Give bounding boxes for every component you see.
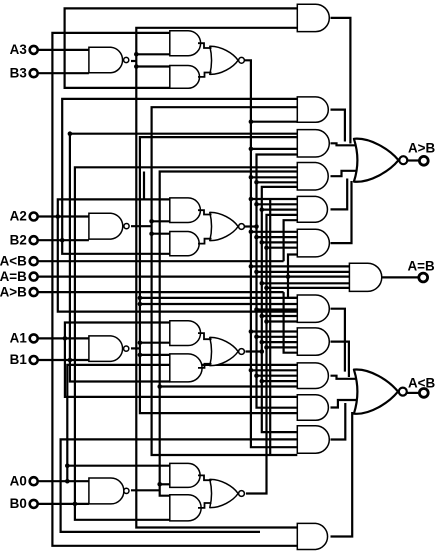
wire net V2 (top AND in / ANDb3 in) [65, 8, 298, 88]
and-gate ANDa0 [170, 463, 200, 487]
wire net N1 (NAND1 output vertical) [140, 137, 297, 413]
nor-gate XNOR3 output NOR [210, 46, 238, 74]
node E1 junction [260, 281, 265, 286]
wire gate11 output [331, 400, 361, 408]
node E1 junction [260, 340, 265, 345]
and-gate ANDb1 [170, 354, 202, 382]
node E3 junction [249, 147, 254, 152]
wire E2 branch [257, 375, 298, 377]
wire E1 branch [262, 341, 298, 343]
node B2 junction [60, 238, 65, 243]
node N1-ANDa1 junction [138, 340, 143, 345]
node E2 output junction [254, 224, 259, 229]
wire E3 branch [251, 121, 297, 123]
and-gate gate10 [297, 363, 328, 389]
node E2 junction [254, 307, 259, 312]
wire A0 input [38, 480, 89, 482]
nand-gate NAND0 [89, 478, 124, 504]
wire A3 input [38, 49, 89, 51]
wire NAND0 output stub [131, 489, 160, 491]
svg-text:B0: B0 [10, 496, 27, 511]
svg-text:A2: A2 [10, 209, 27, 224]
wire net E3 (XNOR3 output vertical) [245, 60, 297, 447]
wire A>B cascade to gate9 [284, 292, 298, 353]
node E2 junction [254, 335, 259, 340]
node E0 junction [264, 319, 269, 324]
svg-text:A<B: A<B [408, 376, 435, 391]
svg-text:A=B: A=B [408, 259, 435, 274]
node E3 junction [249, 264, 254, 269]
node E2 junction [254, 373, 259, 378]
node A1 input terminal [30, 334, 38, 342]
wire E2 branch [257, 203, 298, 205]
svg-text:A3: A3 [10, 42, 27, 57]
nand-gate NAND3 [89, 47, 123, 73]
nor-gate XNOR2 output NOR [210, 212, 238, 240]
wire ANDa0 to NOR0 jog [198, 475, 212, 480]
nand-gate NAND2 [89, 213, 123, 239]
wire E3 branch [251, 369, 297, 371]
node A=B output terminal [419, 273, 428, 282]
node B0 input terminal [30, 500, 38, 508]
wire B0 input [38, 503, 89, 505]
node N2-ANDa2 junction [149, 219, 154, 224]
wire gate9 output [331, 342, 349, 377]
wire B2 input [38, 239, 89, 241]
wire net B0 vertical [75, 167, 297, 520]
wire E0 branch [267, 320, 298, 322]
wire net A1 vertical [65, 323, 297, 397]
svg-text:A>B: A>B [408, 141, 435, 156]
node N3-ANDa3 junction [134, 52, 139, 57]
node N0-ANDa0 junction [157, 482, 162, 487]
and-gate ANDa3 [170, 31, 201, 56]
wire net N2 (NAND2 output vertical) [152, 107, 298, 455]
svg-text:A0: A0 [10, 473, 27, 488]
wire ANDb1 input from N1 [140, 354, 170, 356]
node A0 junction [65, 479, 70, 484]
wire E2 branch [257, 236, 298, 238]
node N1 gate8 junction [138, 296, 143, 301]
wire ANDa3 to NOR3 jog [198, 43, 212, 48]
nor-gate XNOR1 output NOR [210, 337, 238, 365]
node E1 junction [260, 207, 265, 212]
wire net N0 (NAND0 output vertical) [160, 172, 298, 496]
node E2 junction [254, 235, 259, 240]
wire gate3 output [331, 143, 361, 145]
wire B1 input [38, 359, 89, 361]
wire NAND3 output stub [131, 60, 136, 62]
node E2 junction [254, 202, 259, 207]
and-gate gate3 [297, 130, 329, 157]
and-gate ANDb2 [170, 232, 199, 256]
svg-text:A>B: A>B [0, 284, 27, 299]
wire E1 branch [262, 209, 298, 211]
node A>B cascade input terminal [30, 288, 38, 296]
svg-text:B2: B2 [10, 232, 27, 247]
and-gate gate2 [297, 97, 328, 122]
node ANDa0 branch junction [65, 463, 70, 468]
svg-text:A=B: A=B [0, 269, 27, 284]
wire A2 input [38, 215, 89, 217]
wire net E2 (XNOR2 output vertical) [257, 155, 298, 408]
wire A>B cascade input [38, 291, 284, 293]
node A3 input terminal [30, 46, 38, 54]
node N0 gate10 junction [157, 384, 162, 389]
wire E1 branch [262, 380, 298, 382]
node B1 junction [68, 358, 73, 363]
wire E2 branch [257, 336, 298, 338]
node N3-ANDb3 junction [134, 64, 139, 69]
wire E1 branch [262, 315, 298, 317]
wire A1 input [38, 337, 89, 339]
node A1 junction [63, 336, 68, 341]
node E2 junction [254, 270, 259, 275]
node N1 gate8 junction 2 [138, 302, 143, 307]
node E3 junction [249, 175, 254, 180]
wire ANDb3 to NOR3 jog [198, 73, 212, 77]
wire A<B cascade input [38, 260, 284, 262]
wire gate5 output [331, 179, 348, 210]
node A2 input terminal [30, 213, 38, 221]
wire ANDa2 to NOR2 jog [198, 210, 212, 214]
node E0 junction [264, 286, 269, 291]
wire ANDa0 input from N0 [160, 483, 170, 485]
wire ANDa2 input from N2 [152, 220, 170, 222]
wire A<B cascade to gate5 [284, 220, 298, 261]
nor-gate XNOR0 output NOR [210, 479, 238, 507]
node E0 junction [264, 245, 269, 250]
and-gate ANDa2 [170, 198, 201, 223]
wire ANDb1 to NOR1 jog [198, 364, 212, 368]
wire XNOR2 output stub [245, 225, 257, 227]
nor-gate U-ALB (A<B output NOR) [354, 369, 398, 413]
wire ANDa1 to NOR1 jog [198, 333, 212, 339]
wire net A2 vertical [58, 199, 297, 311]
svg-text:A<B: A<B [0, 253, 27, 268]
wire E2 branch [257, 271, 350, 273]
and-gate gate4 [297, 163, 328, 191]
wire XNOR1 output stub [246, 350, 262, 352]
wire net B2 vertical [62, 99, 297, 254]
svg-text:A1: A1 [10, 331, 28, 346]
node E1 junction [260, 314, 265, 319]
wire E1 branch [262, 282, 350, 284]
node E0 junction [264, 345, 269, 350]
wire ANDb3 input from N3 [136, 65, 170, 67]
node E3 junction [249, 230, 254, 235]
node A2 junction [56, 214, 61, 219]
node E3 junction [249, 368, 254, 373]
wire net N3 (NAND3 output vertical) [136, 28, 297, 528]
node E2 junction [254, 180, 259, 185]
node A0 input terminal [30, 477, 38, 485]
wire ANDa0 input branch [67, 465, 170, 467]
wire E3 branch [251, 265, 350, 267]
node B2 input terminal [30, 236, 38, 244]
wire net X606 (gate12 in) [61, 439, 298, 532]
wire A=B cascade branch vertical [288, 255, 297, 298]
node A=B cascade junction [286, 274, 291, 279]
and-gate gate8 [297, 295, 329, 322]
and-gate ANDb0 [170, 495, 201, 521]
wire gate10 output [331, 376, 361, 379]
wire N0 branch to gate10 [160, 385, 298, 387]
node B3 input terminal [30, 69, 38, 77]
wire top AND output [331, 18, 351, 144]
and-gate U-AEB (A=B output AND) [349, 263, 381, 291]
wire E1 branch [262, 241, 298, 243]
node E1 junction [260, 379, 265, 384]
wire E2 branch [257, 308, 298, 310]
node E1 output junction [260, 349, 265, 354]
wire A=B output [382, 276, 419, 278]
wire net A0 vertical [67, 365, 297, 481]
wire B3 input [38, 72, 89, 74]
node A>B output terminal [419, 156, 428, 165]
and-gate top AND (word gate) [297, 4, 329, 31]
wire E3 branch [251, 231, 297, 233]
nand-gate NAND1 [89, 336, 123, 362]
node A<B output terminal [419, 389, 428, 398]
wire A=B cascade input [38, 276, 350, 278]
wire E3 branch [251, 198, 297, 200]
node B1 input terminal [30, 356, 38, 364]
wire NAND1 output stub [131, 347, 140, 349]
node E3 junction [249, 197, 254, 202]
wire net V1 (ANDa3 in / bottom AND in) [52, 33, 297, 546]
wire gate8 input line [140, 297, 297, 299]
wire vertical bus line X270 [269, 199, 271, 455]
wire A>B output [407, 159, 420, 161]
node N1-ANDb1 junction [138, 353, 143, 358]
wire vertical net X144 [143, 172, 145, 200]
svg-text:B1: B1 [10, 352, 28, 367]
wire ANDa1 input from N1 [140, 342, 170, 344]
node B1 top corner junction [68, 131, 73, 136]
and-gate ANDb3 [170, 66, 200, 89]
wire net E0 (XNOR0 output vertical) [246, 215, 297, 494]
wire E3 branch [251, 330, 297, 332]
node E3 junction [249, 119, 254, 124]
node E3 junction [249, 329, 254, 334]
and-gate bottom AND (word gate) [297, 523, 327, 549]
wire gate4 output [331, 171, 361, 176]
node A<B cascade input terminal [30, 257, 38, 265]
wire gate8 output [331, 309, 345, 372]
node A=B cascade input terminal [30, 273, 38, 281]
and-gate gate11 [297, 395, 328, 421]
wire ANDb0 to NOR0 jog [198, 503, 212, 508]
wire ANDb2 input from N2 [152, 233, 170, 235]
and-gate gate12 [297, 426, 329, 453]
wire E3 branch [251, 176, 297, 178]
and-gate gate6 [297, 229, 329, 257]
wire net E1 (XNOR1 output vertical) [262, 187, 298, 432]
and-gate ANDa1 [170, 321, 201, 346]
wire net B1 vertical [70, 134, 297, 382]
wire E0 branch [267, 247, 298, 249]
and-gate gate5 [297, 196, 327, 222]
wire bottom AND output [331, 412, 353, 537]
wire ANDa3 input from N3 [136, 53, 170, 55]
wire E0 branch [267, 346, 298, 348]
wire A<B output [407, 392, 420, 394]
node N2-ANDb2 junction [149, 231, 154, 236]
node B0 junction [73, 502, 78, 507]
nor-gate U-AGB (A>B output NOR) [354, 139, 399, 182]
wire gate6 output [331, 181, 352, 243]
wire E2 branch [257, 181, 298, 183]
wire E0 branch [267, 287, 350, 289]
wire ANDb2 to NOR2 jog [198, 239, 212, 244]
wire NAND2 output stub [131, 225, 152, 227]
wire E3 branch [251, 148, 297, 150]
svg-text:B3: B3 [10, 65, 27, 80]
node E1 junction [260, 240, 265, 245]
wire gate12 output [331, 403, 346, 440]
wire gate8 input line 2 [140, 303, 297, 305]
wire gate2 output [331, 110, 345, 142]
and-gate gate9 [297, 328, 329, 355]
